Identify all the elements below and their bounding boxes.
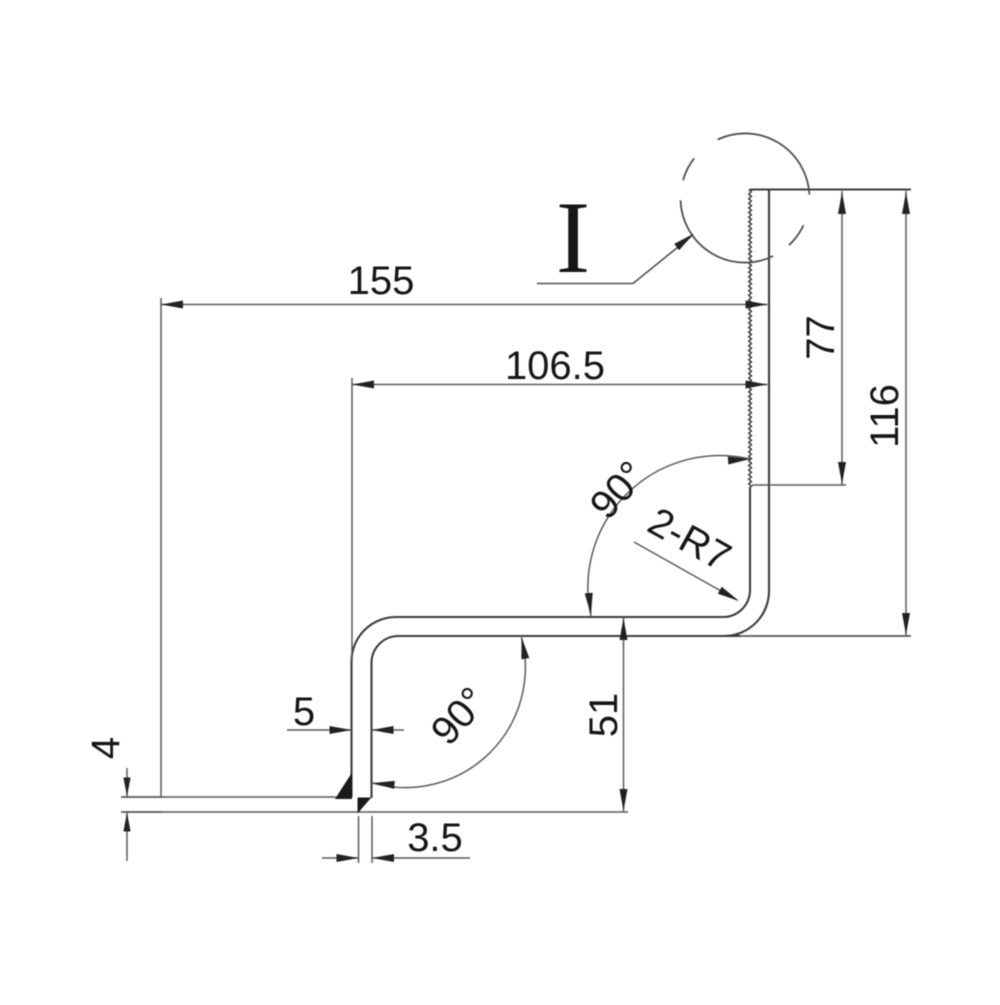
arrowhead 51 bottom xyxy=(620,789,628,811)
arrowhead 5 right xyxy=(372,726,394,734)
arrowhead detail I leader xyxy=(674,234,694,251)
arrowhead upper angle arc upper end xyxy=(728,457,750,465)
extension lines 3.5 xyxy=(358,816,360,863)
arrowhead 5 left xyxy=(330,726,352,734)
arrowhead lower angle arc top end xyxy=(521,637,529,659)
extension line left for 106.5 xyxy=(351,378,353,662)
arrowhead lower angle arc left end xyxy=(373,781,395,789)
lower bend inner arc xyxy=(372,636,399,663)
extension ticks for 4 xyxy=(121,796,163,798)
svg-text:51: 51 xyxy=(582,693,626,738)
upper bend outer arc xyxy=(724,591,769,636)
arrowhead 51 top xyxy=(620,618,628,640)
dimension line 4 upper segment xyxy=(126,768,128,796)
svg-text:I: I xyxy=(556,181,590,295)
svg-text:116: 116 xyxy=(863,384,907,448)
dimension line 155 xyxy=(161,304,768,306)
flange left edge lower straight part xyxy=(749,487,751,590)
lower 90 degree angle arc xyxy=(373,638,526,788)
flange right edge xyxy=(768,190,770,592)
dimension line 4 lower segment xyxy=(126,813,128,861)
wall left edge xyxy=(350,662,352,798)
dimension line 5 left segment xyxy=(287,729,351,731)
dimension line 3.5 right segment xyxy=(373,857,471,859)
arrowhead upper angle arc lower end xyxy=(585,593,593,615)
bottom strip top surface xyxy=(122,796,352,798)
arrowhead 3.5 left xyxy=(337,854,359,862)
arrowhead 4 top xyxy=(123,778,130,797)
dimension line 116 xyxy=(905,191,907,636)
dimension line 3.5 left segment xyxy=(322,857,358,859)
arrowhead 155 right xyxy=(746,301,768,309)
knurled left edge of upper flange xyxy=(749,190,752,488)
extension line bottom for 77 xyxy=(752,484,846,486)
extension line left for 155 xyxy=(160,298,162,797)
arrowhead 106.5 right xyxy=(746,381,768,389)
arrowhead 77 top xyxy=(838,192,846,214)
arrowhead 116 top xyxy=(902,192,910,214)
svg-text:77: 77 xyxy=(799,315,843,360)
detail label I underline xyxy=(537,237,691,284)
wall right edge xyxy=(370,663,372,798)
arrowhead 4 bottom xyxy=(123,813,130,832)
part top edge with extension line for 77 and 116 xyxy=(750,188,911,190)
upper bend inner arc xyxy=(723,590,750,617)
svg-text:155: 155 xyxy=(348,259,415,303)
solid corner fillet left of wall foot xyxy=(335,773,352,800)
arrowhead 116 bottom xyxy=(902,613,910,635)
svg-text:5: 5 xyxy=(293,690,315,734)
svg-text:4: 4 xyxy=(84,737,128,759)
arrowhead 2-R7 leader xyxy=(718,587,739,601)
upper 90 degree angle arc xyxy=(588,456,750,616)
svg-text:106.5: 106.5 xyxy=(505,344,605,388)
dimension line 77 xyxy=(841,191,843,485)
arrowhead 106.5 left xyxy=(352,381,374,389)
detail label I leader diagonal xyxy=(633,237,691,284)
solid corner fillet right of wall foot xyxy=(358,798,372,814)
extension line for 116 bottom xyxy=(740,635,911,637)
middle web bottom surface xyxy=(399,635,741,637)
bottom strip bottom surface with extension for 51 xyxy=(122,811,628,813)
arrowhead 77 bottom xyxy=(838,462,846,484)
arrowhead 155 left xyxy=(161,301,183,309)
dimension line 106.5 xyxy=(352,384,768,386)
svg-text:3.5: 3.5 xyxy=(407,816,463,860)
dimension line 51 xyxy=(623,618,625,812)
detail view circle I xyxy=(681,133,810,262)
dimension line 5 right segment xyxy=(372,729,404,731)
2-R7 leader line xyxy=(634,542,737,600)
arrowhead 3.5 right xyxy=(372,854,394,862)
middle web top surface xyxy=(396,616,723,618)
lower bend outer arc xyxy=(352,617,397,662)
